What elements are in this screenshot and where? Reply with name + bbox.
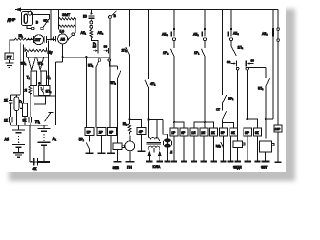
svg-text:КЗ: КЗ xyxy=(83,14,87,18)
switch blade 1R1 xyxy=(201,49,205,57)
wire 4K branch xyxy=(30,125,44,162)
lamp L xyxy=(163,139,171,147)
battery A1 xyxy=(37,125,50,145)
wire column 4P1 from bus xyxy=(148,10,150,138)
wire column 2P1 from bus xyxy=(129,10,131,120)
svg-text:36: 36 xyxy=(251,59,255,63)
connector sockets on rail xyxy=(98,59,110,62)
wire node 119 to relay box 6K xyxy=(246,118,257,128)
wire connector 33 down to EKDL xyxy=(237,70,239,141)
wire hourglass top bar xyxy=(26,52,48,57)
wire DNR right lead to node xyxy=(32,15,50,20)
contact 2K xyxy=(9,95,20,117)
svg-text:ЮЛА: ЮЛА xyxy=(153,165,161,169)
ground bar lamp xyxy=(164,160,170,162)
wire EKV to ground xyxy=(117,150,119,162)
wire DNR bottom lead xyxy=(27,26,31,29)
svg-text:5П₂: 5П₂ xyxy=(258,87,264,91)
resistor Sh1 shunt winding zigzag xyxy=(14,38,33,40)
svg-text:АБ₃: АБ₃ xyxy=(162,33,168,37)
svg-text:ДНР: ДНР xyxy=(8,18,16,22)
wire rail57 xyxy=(63,56,110,58)
ground bar secondary right xyxy=(157,160,163,162)
relay box 8R xyxy=(108,128,117,136)
resistor Shu zigzag xyxy=(25,47,47,52)
machine PT xyxy=(51,34,68,44)
contactor AB4 xyxy=(228,28,232,41)
connector pin 10 left xyxy=(91,38,98,54)
svg-text:8Р: 8Р xyxy=(109,130,114,134)
breaker DNR box xyxy=(22,10,33,26)
wire socket branch to EKV column xyxy=(109,61,117,66)
coil EMT winding 1 xyxy=(58,18,75,20)
svg-text:Л: Л xyxy=(170,151,172,155)
svg-text:5П₁: 5П₁ xyxy=(88,64,93,68)
relay row box 1Ya xyxy=(190,128,198,136)
svg-text:3К: 3К xyxy=(23,119,27,123)
ground bar under 8R xyxy=(107,152,115,154)
resistor R1 box xyxy=(14,97,19,125)
wire connector 36 to EVT column xyxy=(249,66,266,68)
svg-text:АБ₅: АБ₅ xyxy=(262,32,268,36)
switch V xyxy=(31,19,48,30)
motor PN xyxy=(125,135,135,150)
switch blade 1P4 xyxy=(231,46,236,56)
svg-text:2К: 2К xyxy=(211,131,215,135)
svg-text:Ш₂: Ш₂ xyxy=(123,122,128,126)
contactor EVT box xyxy=(260,141,275,152)
wire generator feeder drop xyxy=(50,10,52,41)
svg-text:4Р: 4Р xyxy=(139,130,144,134)
svg-text:ЭМТ: ЭМТ xyxy=(62,13,71,17)
svg-text:АБ₄: АБ₄ xyxy=(233,32,239,36)
terminal arrow left end of bus xyxy=(15,7,21,11)
wire rail junction to relay box 1 xyxy=(85,57,87,127)
svg-text:1Р₂: 1Р₂ xyxy=(163,51,169,55)
wire STG node down to regulator box xyxy=(48,41,50,86)
wire column AB1 from bus xyxy=(204,10,206,129)
svg-text:Ш₁: Ш₁ xyxy=(19,34,24,38)
wires row boxes to grounds xyxy=(174,136,258,161)
wire 273 corner to EVT column xyxy=(265,118,273,120)
svg-text:5П₂: 5П₂ xyxy=(111,81,117,85)
switch column VR1 ST xyxy=(223,10,234,129)
svg-text:2Р: 2Р xyxy=(99,130,104,134)
relay row box 1R xyxy=(170,128,178,136)
coil AB2 zigzag xyxy=(90,28,93,38)
svg-text:А₁: А₁ xyxy=(53,137,57,141)
contactor AB5 xyxy=(277,28,280,42)
ground bar 4R xyxy=(137,150,145,152)
switch blade 5R1 xyxy=(86,136,89,153)
switch blade 5P2 on EVT column xyxy=(266,67,270,138)
transformer secondary xyxy=(148,146,159,152)
wire PN to ground xyxy=(129,151,131,162)
switch 5P2 on EKV column xyxy=(118,66,121,143)
connector pin 33 xyxy=(231,60,239,69)
relay box 5R xyxy=(85,128,94,136)
wire 10R to ground xyxy=(277,132,279,162)
connector pin 36 xyxy=(246,60,254,69)
resistor G1 box xyxy=(41,71,47,86)
wire column 110 to relay box 3 xyxy=(109,57,111,128)
wire column AB4 from bus xyxy=(230,10,232,47)
svg-text:1Я: 1Я xyxy=(191,131,196,135)
switch blade 1R2 xyxy=(170,49,174,57)
wire lamp feed rail xyxy=(147,119,167,140)
relay box 10R elevated xyxy=(274,125,282,132)
svg-text:8К: 8К xyxy=(231,131,235,135)
relay row box 2K xyxy=(210,128,218,136)
regulator 2P1 box with arrow xyxy=(38,82,50,95)
coil Sh2 zigzag xyxy=(128,119,131,134)
svg-text:В: В xyxy=(36,21,39,25)
wire resistor bottoms to y96 rail xyxy=(34,62,63,125)
ground bar EKDL xyxy=(235,160,241,162)
svg-text:Р₁: Р₁ xyxy=(93,42,96,46)
resistor R2 box with wiper xyxy=(22,103,27,125)
contactor EKV box xyxy=(113,143,125,150)
relay row box 6R xyxy=(180,128,188,136)
wire EVT to ground xyxy=(265,152,267,161)
ground bars under row xyxy=(171,160,261,162)
ground bar PN xyxy=(125,161,134,163)
svg-text:5,0: 5,0 xyxy=(60,30,65,34)
svg-text:ЭКВ: ЭКВ xyxy=(113,166,120,170)
svg-text:30: 30 xyxy=(104,45,108,49)
wire column AB5 right xyxy=(277,10,279,125)
relay row box 6K xyxy=(254,128,262,136)
wire EMT left lead xyxy=(57,10,59,30)
coil Ya zigzag xyxy=(29,85,32,117)
svg-text:АБ₁: АБ₁ xyxy=(193,33,199,37)
relay row box 8K xyxy=(230,128,238,136)
transformer core xyxy=(146,142,161,144)
wire box row feed 194-214 xyxy=(194,121,214,128)
svg-text:ЭВТ: ЭВТ xyxy=(261,166,267,170)
svg-text:4П₁: 4П₁ xyxy=(150,82,156,86)
svg-text:СТГ: СТГ xyxy=(35,38,41,42)
svg-text:2Я: 2Я xyxy=(201,131,206,135)
svg-text:Г₅: Г₅ xyxy=(19,100,22,104)
svg-text:Я: Я xyxy=(25,89,28,93)
battery Ab xyxy=(12,125,25,147)
svg-text:АБ: АБ xyxy=(60,38,65,42)
svg-text:1П₄: 1П₄ xyxy=(238,46,244,50)
ground battery Ab xyxy=(13,148,24,158)
svg-text:АБ₁: АБ₁ xyxy=(81,31,87,35)
junction node PN xyxy=(128,118,130,120)
svg-text:ЗП₃: ЗП₃ xyxy=(38,62,44,66)
wire left column 23 xyxy=(23,45,25,104)
svg-text:6К: 6К xyxy=(255,131,259,135)
svg-text:В: В xyxy=(114,14,117,18)
svg-text:3Р: 3Р xyxy=(245,131,250,135)
ground bar EKV xyxy=(113,161,121,163)
wire battery top rail xyxy=(11,124,48,126)
wire PT bottom to rail57 xyxy=(62,44,64,62)
svg-text:6Р: 6Р xyxy=(181,131,186,135)
contactor EKDL box xyxy=(233,141,245,148)
svg-text:ЭКДЛ: ЭКДЛ xyxy=(233,166,242,170)
wire EMT right side down xyxy=(74,18,76,33)
switch blade 2P1 xyxy=(126,47,130,55)
relay row box 3R xyxy=(244,128,252,136)
switch blade 4P1 xyxy=(145,80,149,88)
switch blade ZP4 xyxy=(41,89,44,94)
wire connector right down xyxy=(246,70,248,119)
switch blade to machine PT xyxy=(67,33,75,41)
svg-text:ЗП₁: ЗП₁ xyxy=(43,19,48,23)
svg-text:7П₁: 7П₁ xyxy=(35,120,40,124)
contact hourglass left xyxy=(28,57,35,70)
wire lamp to ground xyxy=(167,147,169,161)
ground bar under 5R xyxy=(86,152,94,154)
contactor AB3 xyxy=(171,28,175,41)
wire EKDL to ground xyxy=(237,148,239,161)
svg-text:33: 33 xyxy=(227,60,231,64)
svg-text:Аб: Аб xyxy=(5,138,9,142)
wire 2R to ground xyxy=(101,136,103,153)
svg-text:2К: 2К xyxy=(4,99,8,103)
connector pin 30 right xyxy=(104,48,109,54)
wire top bus xyxy=(15,9,278,11)
wire Sh1 right to brush xyxy=(27,39,33,41)
ground bar under VD7 xyxy=(220,160,226,162)
arrow brush right secondary xyxy=(158,151,162,162)
svg-text:5Р: 5Р xyxy=(87,130,92,134)
ground bar EVT xyxy=(262,160,270,162)
svg-text:5Р₁: 5Р₁ xyxy=(79,138,84,142)
svg-text:Т₁: Т₁ xyxy=(27,76,31,80)
ground below RT xyxy=(6,60,14,68)
contact hourglass right xyxy=(37,57,44,70)
wiper arrow into R2 xyxy=(20,107,23,109)
resistor T1 box xyxy=(31,71,37,86)
svg-text:СТ: СТ xyxy=(216,108,220,112)
contact 1K xyxy=(9,117,12,125)
wire 2P1 bottom stub xyxy=(34,95,45,104)
wire 4R to ground xyxy=(140,135,142,151)
svg-text:2П₁: 2П₁ xyxy=(122,49,128,53)
svg-text:4К: 4К xyxy=(33,167,37,171)
svg-text:АБ₂: АБ₂ xyxy=(98,31,104,35)
relay box 2R xyxy=(97,128,106,136)
contact 4K xyxy=(31,158,38,165)
svg-text:1Р₁: 1Р₁ xyxy=(194,51,200,55)
svg-text:Г₁: Г₁ xyxy=(48,76,52,80)
contactor AB1 xyxy=(202,28,206,41)
svg-text:Шу: Шу xyxy=(48,51,53,55)
regulator RT box xyxy=(5,53,14,60)
wire battery A1 bottom xyxy=(43,146,45,162)
switch V2 at top of column 110 xyxy=(109,11,117,57)
switch 7P1 xyxy=(45,112,54,121)
contactor KZ column from bus xyxy=(88,10,94,29)
switch blade 5P1 to relay box 2 xyxy=(96,61,99,127)
generator STG xyxy=(33,35,55,45)
relay row box 2Ya xyxy=(200,128,208,136)
svg-text:ПН: ПН xyxy=(127,166,132,170)
transformer primary xyxy=(149,120,160,142)
wire column AB3 from bus xyxy=(173,10,175,129)
coil EMT winding 2 xyxy=(58,25,75,27)
ground bar battery A1 xyxy=(38,161,50,163)
svg-text:9Р: 9Р xyxy=(221,131,226,135)
svg-text:РТ: РТ xyxy=(7,54,12,59)
ground bar secondary left xyxy=(146,160,153,162)
svg-text:10Р: 10Р xyxy=(275,127,281,131)
arrow brush left secondary xyxy=(148,151,152,162)
contact 3K xyxy=(29,117,32,125)
ground bar under 2R xyxy=(98,152,106,154)
svg-text:ЗП₄: ЗП₄ xyxy=(46,90,52,94)
relay 4R box xyxy=(137,127,146,134)
wire right edge drop xyxy=(272,10,274,120)
wire box row feed 174-184 xyxy=(173,121,184,128)
wire 8R to ground xyxy=(110,136,112,153)
wire branch to relay 4R xyxy=(130,119,142,127)
junction dots on rail57 xyxy=(85,56,87,58)
ground bar 10R xyxy=(275,161,282,163)
relay row box 9R xyxy=(220,128,228,136)
svg-text:1К: 1К xyxy=(4,119,8,123)
switch blade VD7 xyxy=(221,136,224,161)
svg-text:ВР₁: ВР₁ xyxy=(228,97,233,101)
svg-text:ВД₇: ВД₇ xyxy=(216,144,221,148)
svg-text:1Р: 1Р xyxy=(171,131,176,135)
wire left column 20 xyxy=(19,43,21,96)
wire Sh1 to RT xyxy=(10,40,14,53)
